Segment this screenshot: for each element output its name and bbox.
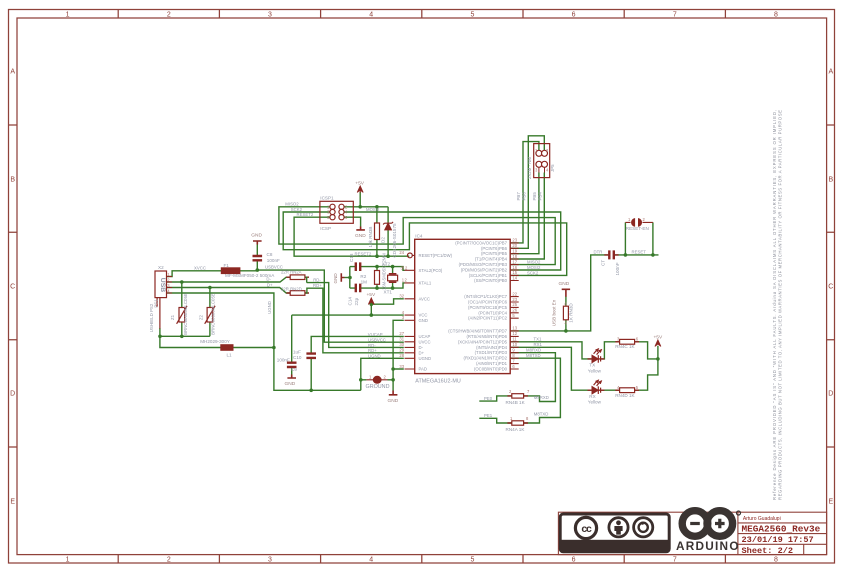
- svg-text:8: 8: [512, 353, 515, 358]
- wire PB5 to JP5: [511, 173, 539, 254]
- wire USBVCC from F1/C8 junction to IC pin 31 UVCC: [257, 270, 404, 342]
- svg-text:2: 2: [405, 278, 408, 283]
- svg-text:26: 26: [512, 308, 517, 313]
- svg-text:RN4D 1K: RN4D 1K: [615, 393, 635, 398]
- svg-text:C: C: [828, 284, 833, 291]
- JP5 header: [534, 144, 550, 178]
- USB connector X2: [155, 271, 167, 298]
- wire RD+ from RN2D to IC pin 29: [305, 288, 404, 353]
- wire shield to Z rail: [160, 328, 222, 348]
- wire RESET2 ICSP pin5 to IC pin24: [294, 217, 409, 256]
- svg-text:+5V: +5V: [654, 334, 663, 340]
- svg-text:(OC0B/INT0)PD0: (OC0B/INT0)PD0: [474, 367, 508, 372]
- svg-text:(PCINT6)PB6: (PCINT6)PB6: [481, 246, 508, 251]
- svg-text:AVCC: AVCC: [419, 296, 431, 301]
- svg-text:MEGA2560_Rev3e: MEGA2560_Rev3e: [742, 524, 821, 535]
- svg-text:(INT4/ICP1/CLK0)PC7: (INT4/ICP1/CLK0)PC7: [464, 294, 507, 299]
- svg-text:8: 8: [774, 12, 778, 19]
- svg-text:PS1: PS1: [154, 299, 159, 308]
- svg-text:2: 2: [643, 217, 646, 222]
- IC IC4 ATMEGA16U2-MU body: [415, 239, 511, 373]
- wire PB4 to JP5: [511, 173, 544, 260]
- wire RN4C to +5V junction: [635, 342, 658, 359]
- svg-text:29: 29: [399, 348, 404, 353]
- svg-text:+5V: +5V: [367, 292, 376, 298]
- svg-text:(PCINT5)PB5: (PCINT5)PB5: [481, 251, 508, 256]
- wire crystal left riser: [349, 267, 351, 289]
- wire ICSP GND stem: [342, 217, 360, 226]
- svg-text:GROUND: GROUND: [366, 384, 390, 390]
- wire D2 vertical: [387, 207, 389, 256]
- svg-text:23: 23: [512, 297, 517, 302]
- svg-text:F1: F1: [224, 263, 230, 268]
- wire R2 leads: [376, 267, 378, 289]
- resistor RN2A: [290, 275, 305, 280]
- svg-text:E: E: [828, 499, 833, 506]
- svg-text:4: 4: [565, 321, 568, 326]
- wire TX1 from pin11 to TX LED chain: [511, 342, 591, 359]
- wire GND pin3 down to GROUND bead right pad: [393, 320, 404, 369]
- svg-text:(PCINT9/OC1B)PC5: (PCINT9/OC1B)PC5: [468, 305, 508, 310]
- resistor R2 1M: [375, 271, 380, 285]
- inductor L1: [221, 345, 233, 350]
- wire RN3D vertical USB boot En: [565, 297, 567, 331]
- svg-text:4: 4: [369, 12, 373, 19]
- wire C8 stem: [256, 244, 258, 270]
- resistor RN4C: [620, 339, 635, 344]
- wire UGND from X2 pin4 down to ground rail: [167, 293, 361, 390]
- +5V symbol right TX/RX: [655, 340, 661, 347]
- svg-text:4: 4: [546, 168, 549, 173]
- svg-text:UCAP: UCAP: [419, 334, 431, 339]
- IC4 left pin stubs: [405, 255, 415, 369]
- wire VCC line to IC pin 4: [292, 314, 404, 316]
- svg-text:+5V: +5V: [355, 181, 364, 187]
- svg-text:UGND: UGND: [368, 354, 381, 359]
- svg-text:32: 32: [399, 294, 404, 299]
- CC SA arrow logo: [634, 518, 653, 537]
- svg-text:B: B: [10, 177, 15, 184]
- svg-text:VUCAP: VUCAP: [368, 332, 383, 337]
- svg-text:16M-SMD5X3.2MM: 16M-SMD5X3.2MM: [382, 253, 387, 290]
- ferrite bead GROUND: [366, 379, 387, 381]
- svg-text:GND: GND: [333, 273, 338, 284]
- capacitor C10: [306, 354, 316, 358]
- wire RN3B vertical: [376, 207, 378, 256]
- IC4 pin numbers: [399, 238, 517, 369]
- svg-text:4: 4: [369, 557, 373, 564]
- svg-text:USBVCC: USBVCC: [368, 337, 386, 342]
- wire M8RXD pin9 to RN4B: [511, 353, 555, 402]
- svg-text:(RXD1/AIN1/INT2)PD2: (RXD1/AIN1/INT2)PD2: [464, 356, 508, 361]
- svg-text:(PDO/MISO/PCINT3)PB3: (PDO/MISO/PCINT3)PB3: [459, 262, 508, 267]
- svg-text:BRNC60603MLC05E: BRNC60603MLC05E: [211, 293, 216, 335]
- wire RESET-EN legs: [625, 222, 653, 255]
- svg-text:100nF: 100nF: [267, 258, 280, 263]
- wire crystal gnd stem: [345, 277, 350, 279]
- svg-text:C10: C10: [293, 355, 302, 360]
- svg-text:1K RN3D: 1K RN3D: [569, 303, 574, 323]
- svg-text:PB4: PB4: [538, 192, 543, 201]
- svg-text:(PCINT7/OC0A/OC1C)PB7: (PCINT7/OC0A/OC1C)PB7: [455, 240, 507, 245]
- svg-text:XVCC: XVCC: [194, 266, 206, 271]
- wire +5V stem right: [657, 346, 659, 359]
- svg-text:UGND: UGND: [267, 301, 272, 314]
- svg-text:M8TXD: M8TXD: [534, 411, 549, 416]
- wire PB7 to JP5: [511, 142, 539, 243]
- wire Z2 leads: [209, 288, 211, 337]
- svg-text:22: 22: [512, 291, 517, 296]
- svg-text:BRNC60603MLC05E: BRNC60603MLC05E: [183, 293, 188, 335]
- wire RN4B left to PE0: [479, 396, 512, 401]
- svg-text:C14: C14: [348, 297, 353, 306]
- svg-text:31: 31: [399, 337, 404, 342]
- ground symbol crystal (rotated): [341, 273, 344, 282]
- svg-text:RD+: RD+: [313, 283, 322, 288]
- svg-text:Z1: Z1: [170, 314, 175, 320]
- wire UGND pin28: [361, 358, 404, 390]
- ground symbol below C9: [287, 375, 296, 379]
- wire XVCC from X2 pin1 to fuse F1: [167, 271, 258, 277]
- svg-text:A: A: [10, 69, 15, 76]
- svg-text:RESET-EN: RESET-EN: [626, 226, 649, 231]
- resistor RN3B 10k: [375, 223, 380, 240]
- svg-text:10k RN3B: 10k RN3B: [368, 227, 373, 248]
- ICSP1 header: [320, 201, 353, 223]
- svg-text:ARDUINO: ARDUINO: [676, 539, 738, 553]
- wire Z1 leads: [181, 282, 183, 336]
- svg-text:100nF: 100nF: [615, 262, 620, 275]
- wire AVCC staircase to pin 32: [371, 299, 404, 304]
- svg-text:(PCINT10)PC4: (PCINT10)PC4: [478, 310, 507, 315]
- svg-text:Reference Designs ARE PROVIDED: Reference Designs ARE PROVIDED "AS IS" A…: [772, 110, 777, 500]
- svg-text:(PDI/MOSI/PCINT2)PB2: (PDI/MOSI/PCINT2)PB2: [461, 268, 508, 273]
- svg-text:RESET2: RESET2: [355, 251, 372, 256]
- svg-text:10: 10: [512, 342, 517, 347]
- svg-text:ATMEGA16U2-MU: ATMEGA16U2-MU: [415, 378, 461, 384]
- svg-text:SCK2: SCK2: [527, 271, 539, 276]
- svg-text:3: 3: [268, 12, 272, 19]
- resistor RN2D: [290, 291, 305, 296]
- resistor RN4B: [512, 394, 524, 398]
- wire RN4D to RX LED: [600, 389, 619, 391]
- svg-text:19: 19: [512, 249, 517, 254]
- title block frame: [558, 512, 826, 554]
- svg-text:UVCC: UVCC: [419, 339, 431, 344]
- svg-text:2: 2: [167, 12, 171, 19]
- svg-text:11: 11: [512, 337, 517, 342]
- svg-text:XTAL2(PC0): XTAL2(PC0): [419, 268, 443, 273]
- svg-text:M8TXD: M8TXD: [526, 353, 541, 358]
- svg-text:2X2M - NM: 2X2M - NM: [527, 157, 532, 180]
- wire DTR from pin13 up to CT: [511, 255, 608, 331]
- svg-text:D-: D-: [419, 345, 424, 350]
- varistor Z2: [207, 308, 213, 323]
- svg-text:Yellow: Yellow: [588, 368, 602, 373]
- svg-text:6: 6: [636, 336, 639, 341]
- svg-text:RD-: RD-: [313, 277, 321, 282]
- svg-text:(T1/PCINT4)PB4: (T1/PCINT4)PB4: [475, 257, 508, 262]
- svg-text:22R RN2D: 22R RN2D: [281, 286, 302, 291]
- svg-text:GND: GND: [559, 281, 570, 287]
- svg-text:(SS/PCINT0)PB0: (SS/PCINT0)PB0: [474, 278, 507, 283]
- svg-text:1: 1: [369, 374, 372, 379]
- svg-text:GND: GND: [419, 318, 428, 323]
- +5V symbol at AVCC: [368, 298, 374, 305]
- svg-text:3: 3: [402, 315, 405, 320]
- svg-text:RX: RX: [589, 394, 595, 399]
- svg-text:2: 2: [384, 374, 387, 379]
- svg-text:RN4A 1K: RN4A 1K: [506, 427, 526, 432]
- resistor RN4A: [512, 421, 524, 425]
- svg-text:RD-: RD-: [368, 343, 376, 348]
- +5V symbol above ICSP: [357, 186, 661, 347]
- junction dots: [158, 205, 660, 392]
- svg-text:PAD: PAD: [419, 367, 427, 372]
- svg-text:C: C: [10, 284, 15, 291]
- svg-text:B: B: [828, 177, 833, 184]
- svg-text:GND: GND: [355, 233, 366, 239]
- svg-text:PB6: PB6: [522, 192, 527, 201]
- fuse F1: [221, 268, 239, 274]
- wire +5V ICSP row: [342, 206, 388, 208]
- wire PB6 to JP5: [511, 136, 544, 249]
- wire D+ from X2 pin3 to RN2D: [167, 288, 291, 294]
- wire C9 vertical from VCC line to GND: [291, 315, 293, 374]
- svg-text:CT: CT: [601, 260, 606, 266]
- svg-text:1: 1: [628, 217, 631, 222]
- svg-text:22p: 22p: [354, 297, 359, 305]
- wire M8TXD pin8 to RN4A: [511, 358, 560, 423]
- wire +5V junction down to RN4D: [635, 359, 658, 390]
- svg-text:7: 7: [673, 12, 677, 19]
- svg-text:8: 8: [526, 416, 529, 421]
- svg-text:23: 23: [512, 238, 517, 243]
- svg-text:cc: cc: [581, 523, 592, 535]
- svg-text:(INT5/AIN3)PD4: (INT5/AIN3)PD4: [476, 345, 508, 350]
- wire RD- from RN2A to IC pin 30: [307, 283, 404, 348]
- svg-text:1: 1: [66, 12, 70, 19]
- svg-text:Sheet: 2/2: Sheet: 2/2: [742, 546, 794, 556]
- svg-text:X2: X2: [158, 265, 164, 270]
- svg-text:D-: D-: [266, 277, 271, 282]
- svg-text:17: 17: [512, 259, 517, 264]
- LED RX: [588, 389, 605, 391]
- ground symbol below ICSP: [356, 227, 365, 230]
- svg-text:20: 20: [512, 243, 517, 248]
- svg-text:IC4: IC4: [415, 233, 423, 238]
- wire UCAP to C10: [311, 336, 404, 390]
- wire RN4A left to PE1: [479, 418, 512, 423]
- svg-text:RESET2: RESET2: [297, 212, 314, 217]
- ground symbol above C8: [253, 227, 570, 395]
- svg-text:5: 5: [470, 12, 474, 19]
- svg-text:RESET(PC1/DW): RESET(PC1/DW): [419, 253, 453, 258]
- net labels gray: [149, 148, 663, 432]
- svg-text:8: 8: [774, 557, 778, 564]
- wire RX LED left to pin10 RX1: [511, 347, 591, 390]
- svg-text:PB5: PB5: [532, 192, 537, 201]
- wire XT leads: [392, 267, 394, 289]
- svg-text:REGARDING PRODUCTS, INCLUDING: REGARDING PRODUCTS, INCLUDING BUT NOT LI…: [778, 110, 783, 500]
- svg-text:14: 14: [512, 275, 517, 280]
- svg-text:TX: TX: [589, 363, 595, 368]
- svg-text:22R RN2A: 22R RN2A: [281, 270, 302, 275]
- svg-text:ICSP: ICSP: [320, 226, 331, 231]
- svg-text:23/01/19 17:57: 23/01/19 17:57: [742, 535, 814, 545]
- svg-text:Arturo Guadalupi: Arturo Guadalupi: [743, 516, 781, 522]
- svg-text:6: 6: [512, 364, 515, 369]
- wire TX LED to RN4C: [600, 342, 619, 359]
- crystal XT1: [389, 274, 397, 282]
- svg-text:5: 5: [470, 557, 474, 564]
- capacitor C14: [356, 284, 360, 293]
- svg-text:MOSI2: MOSI2: [366, 207, 380, 212]
- svg-text:2: 2: [405, 265, 408, 270]
- svg-text:RESET: RESET: [632, 250, 647, 255]
- svg-text:1: 1: [66, 557, 70, 564]
- wire +5V stem at ICSP: [359, 192, 361, 207]
- wire L1 right to UGND junction: [233, 347, 274, 349]
- capacitor C8: [253, 256, 263, 260]
- svg-text:7: 7: [527, 389, 530, 394]
- svg-text:9: 9: [512, 348, 515, 353]
- svg-text:RN4C 1K: RN4C 1K: [615, 344, 635, 349]
- resistor RN4D: [620, 388, 635, 393]
- svg-text:(AIN0/INT1)PD1: (AIN0/INT1)PD1: [476, 361, 508, 366]
- varistor Z1: [179, 308, 185, 323]
- svg-text:1: 1: [510, 416, 513, 421]
- svg-text:UGND: UGND: [419, 356, 432, 361]
- svg-text:MISO2: MISO2: [527, 260, 541, 265]
- svg-text:(OC1A/PCINT8)PC6: (OC1A/PCINT8)PC6: [468, 300, 508, 305]
- svg-text:7: 7: [673, 557, 677, 564]
- CC circle logo: [575, 517, 596, 538]
- svg-text:33: 33: [399, 364, 404, 369]
- svg-text:12: 12: [512, 331, 517, 336]
- wire RESET from CT to right: [615, 254, 659, 256]
- LED TX: [588, 358, 605, 360]
- IC4 right pin stubs: [510, 243, 519, 369]
- svg-text:6: 6: [565, 301, 568, 306]
- svg-text:5: 5: [512, 313, 515, 318]
- svg-text:(AIN2/PCINT11)PC2: (AIN2/PCINT11)PC2: [468, 316, 508, 321]
- svg-text:C13: C13: [349, 253, 354, 262]
- svg-text:(TXD1/INT3)PD3: (TXD1/INT3)PD3: [475, 350, 508, 355]
- svg-text:18: 18: [512, 254, 517, 259]
- svg-text:6: 6: [572, 12, 576, 19]
- svg-text:MH2029-300Y: MH2029-300Y: [200, 339, 230, 344]
- svg-text:100nF: 100nF: [277, 358, 290, 363]
- svg-text:16: 16: [512, 265, 517, 270]
- svg-text:D: D: [828, 391, 833, 398]
- svg-text:RN4B 1K: RN4B 1K: [506, 400, 526, 405]
- wire SCK2 loop ICSP pin3 to IC pin15: [283, 212, 567, 275]
- IC4 pin names: [419, 253, 453, 372]
- CC BY person logo: [609, 518, 628, 537]
- svg-text:13: 13: [512, 326, 517, 331]
- IC4 reset pin circle: [408, 253, 413, 258]
- svg-text:USB: USB: [159, 278, 166, 292]
- svg-text:3: 3: [535, 168, 538, 173]
- resistor RN3D 1K: [563, 306, 568, 320]
- wire D- from X2 pin2 to RN2A: [167, 277, 291, 282]
- svg-text:C8: C8: [267, 252, 273, 257]
- svg-text:C9: C9: [291, 367, 297, 372]
- svg-text:1uF: 1uF: [293, 350, 301, 355]
- wire crystal bottom rail XTAL1: [350, 283, 405, 288]
- svg-text:GND: GND: [388, 398, 399, 404]
- svg-text:DTR: DTR: [594, 250, 603, 255]
- svg-text:D: D: [10, 391, 15, 398]
- svg-text:PB7: PB7: [516, 192, 521, 201]
- X2 shield pads: [157, 298, 160, 329]
- svg-text:RX1: RX1: [534, 342, 543, 347]
- svg-text:Yellow: Yellow: [588, 400, 602, 405]
- svg-text:USB boot En: USB boot En: [552, 299, 557, 326]
- svg-text:5: 5: [636, 385, 639, 390]
- svg-text:24: 24: [399, 250, 404, 255]
- svg-text:JP5: JP5: [550, 164, 555, 172]
- svg-text:A: A: [828, 69, 833, 76]
- svg-text:(XCK/AIN4/PCINT12)PD5: (XCK/AIN4/PCINT12)PD5: [458, 339, 508, 344]
- solder jumper RESET-EN: [625, 221, 653, 223]
- svg-text:3: 3: [268, 557, 272, 564]
- wire pad column pin33 / bead right / gnd: [388, 369, 404, 391]
- svg-text:6: 6: [572, 557, 576, 564]
- Arduino infinity logo: [682, 511, 740, 537]
- ground symbol below bead: [389, 391, 398, 395]
- svg-text:2: 2: [167, 557, 171, 564]
- wire MISO2 loop ICSP pin1 to IC pin17: [279, 207, 555, 265]
- wire MOSI2 ICSP pin4 to IC pin16: [342, 212, 560, 270]
- CC license badge: [560, 514, 669, 552]
- svg-text:GND: GND: [285, 381, 296, 387]
- svg-text:E: E: [10, 499, 15, 506]
- svg-text:28: 28: [399, 353, 404, 358]
- svg-text:M8RXD: M8RXD: [526, 348, 541, 353]
- svg-text:RD+: RD+: [368, 348, 377, 353]
- svg-text:L1: L1: [227, 352, 233, 357]
- svg-text:PE0: PE0: [484, 396, 493, 401]
- capacitor CT: [609, 250, 614, 259]
- capacitor C9: [287, 363, 297, 367]
- capacitor C13: [356, 262, 360, 271]
- svg-text:XTAL1: XTAL1: [419, 280, 432, 285]
- svg-text:2: 2: [546, 148, 549, 153]
- zener diode D2: [385, 223, 391, 230]
- wire crystal top rail XTAL2: [350, 267, 405, 271]
- wire +5V stem at AVCC: [370, 304, 372, 315]
- svg-text:MOSI2: MOSI2: [527, 265, 541, 270]
- svg-text:(CTS/HWB/AIN6/TO/INT7)PD7: (CTS/HWB/AIN6/TO/INT7)PD7: [448, 328, 507, 333]
- svg-text:Z2: Z2: [198, 314, 203, 320]
- svg-text:1M: 1M: [361, 279, 368, 284]
- svg-text:D2: D2: [380, 237, 385, 243]
- svg-text:D+: D+: [267, 283, 273, 288]
- svg-text:R2: R2: [360, 274, 366, 279]
- svg-text:7: 7: [512, 358, 515, 363]
- ground symbol above RN3D: [562, 289, 570, 297]
- svg-text:(RTS/AIN5/INT6)PD6: (RTS/AIN5/INT6)PD6: [466, 334, 507, 339]
- svg-text:PE1: PE1: [484, 413, 493, 418]
- svg-text:D+: D+: [419, 350, 425, 355]
- svg-text:CD1206-S01575: CD1206-S01575: [392, 223, 397, 258]
- svg-text:30: 30: [399, 342, 404, 347]
- svg-text:ICSP1: ICSP1: [320, 195, 334, 200]
- svg-text:TX1: TX1: [534, 337, 542, 342]
- svg-text:27: 27: [399, 331, 404, 336]
